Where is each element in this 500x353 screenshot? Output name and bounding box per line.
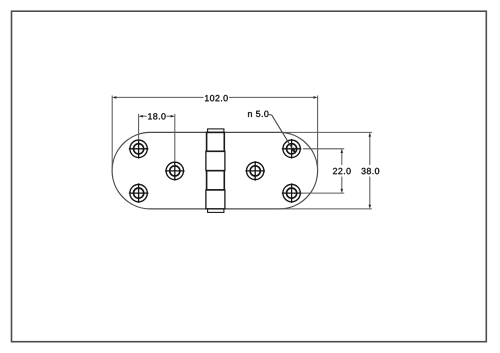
extension line at middle hole [174,114,176,162]
hole top-right [282,139,302,159]
hinge knuckle barrel [206,129,225,213]
arrowhead 38.0 top [369,132,372,136]
arrowhead 18.0 right [171,115,175,118]
extension line left [111,96,113,171]
dim text 102.0 [205,95,228,101]
pin bottom cap [208,209,224,213]
hole top-left [129,139,149,159]
dim text 18.0 [148,113,165,119]
dim text 22.0 [333,168,351,174]
hinge plate outline (stadium) [112,132,318,209]
arrowhead 38.0 bottom [369,205,372,209]
extension line top [279,131,372,133]
dimension line [341,152,343,165]
hole bottom-left [129,183,149,203]
dimension 18.0 [139,114,175,162]
arrowhead 102.0 right [313,96,317,99]
dimension 22.0 [301,149,344,193]
knuckle segment 3 [207,171,225,190]
extension line bottom [301,192,344,194]
hole middle-left [165,161,185,181]
screw holes [129,139,302,203]
dimension line [142,115,147,117]
extension line at left hole [138,114,140,140]
leader text n 5.0 [248,111,268,117]
dim text 38.0 [361,168,379,174]
leader n 5.0 [269,115,295,154]
pin top cap [208,129,224,133]
knuckle segment 1 [207,132,225,151]
arrowhead 22.0 top [341,149,344,153]
dimension line [116,96,204,98]
dimension 38.0 [279,132,372,209]
extension line right [317,96,319,171]
extension line bottom [279,208,372,210]
dimension 102.0 [112,96,317,171]
arrowhead 102.0 left [112,96,116,99]
hole middle-right [245,161,265,181]
dimension line [369,136,371,165]
hole bottom-right [282,183,302,203]
knuckle segment 2 [206,151,225,170]
arrowhead 22.0 bottom [341,189,344,193]
arrowhead 18.0 left [139,115,143,118]
extension line top [303,148,344,150]
leader arrowhead [291,147,296,154]
knuckle segment 4 [206,190,225,209]
